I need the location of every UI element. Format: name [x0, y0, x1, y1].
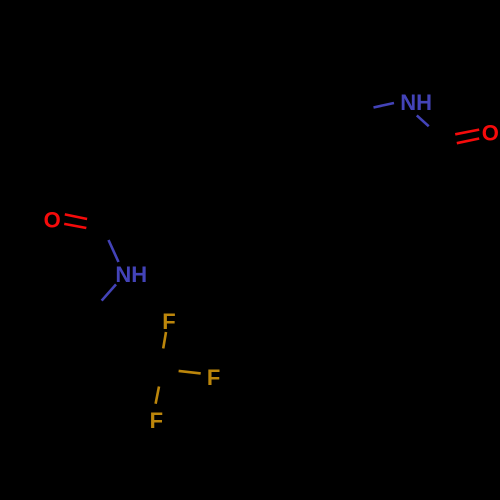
bond N to phenyl C (nitrogen half, blue) [102, 284, 116, 300]
svg-text:O: O [482, 121, 499, 146]
bond carbonyl C to methyl (black) [441, 138, 448, 167]
double bond C=O line 2 (oxygen half, red) [457, 139, 479, 144]
svg-text:F: F [150, 408, 163, 433]
hidden carbon skeleton (black bonds, invisible on black) [55, 90, 352, 440]
svg-text:O: O [44, 208, 61, 233]
bond N to carbonyl C (nitrogen half, blue) [417, 115, 429, 126]
svg-text:NH: NH [400, 90, 432, 115]
bond C to F2 (fluorine half, gold) [179, 371, 201, 374]
double bond C=O line 1 (oxygen half, red) [455, 130, 479, 135]
bond carbonyl C to N (nitrogen half, blue) [109, 240, 119, 262]
bond C to F3 (fluorine half, gold) [156, 387, 159, 404]
bond F1 to C (carbon half, black) [161, 349, 164, 370]
wire: ring to chain [150, 165, 245, 230]
svg-text:F: F [162, 309, 175, 334]
bond N to phenyl C (carbon half, black) [88, 301, 102, 317]
wire: C-CF3 bond black half [140, 355, 159, 370]
double bond C=O line 1 (oxygen half, red) [65, 214, 87, 219]
bond C to F2 (carbon half, black) [159, 369, 179, 371]
bond ring-C to N (carbon half, black) [352, 108, 374, 113]
wire: lower phenyl ring (CF3-anilide) [55, 317, 155, 440]
bond carbonyl C to N (carbon half, black) [99, 218, 109, 240]
wire: benzene ring top (carbons) [245, 90, 352, 192]
double bond C=O line 2 (oxygen half, red) [64, 224, 86, 228]
double bond C=O (carbon halves, black) [86, 219, 109, 233]
bond C to F3 (carbon half, black) [159, 370, 161, 387]
bond N to carbonyl C (carbon half, black) [429, 126, 441, 137]
svg-text:NH: NH [115, 262, 147, 287]
svg-text:F: F [207, 365, 220, 390]
bond ring-C to N (nitrogen half, blue) [374, 103, 395, 108]
bond F1 to C (fluorine half, gold) [163, 332, 166, 349]
